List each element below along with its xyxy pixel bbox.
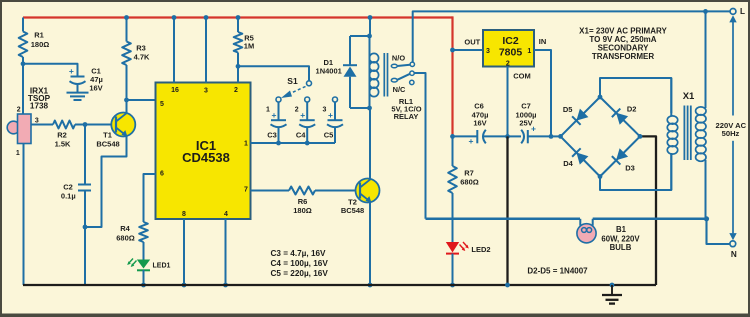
wire LED2 to ground: [452, 254, 454, 285]
svg-text:680Ω: 680Ω: [116, 234, 135, 243]
label 220V AC: [716, 121, 747, 138]
mains live wire: [729, 15, 736, 240]
node LED2 ground: [450, 283, 455, 288]
R7 labels: [460, 169, 479, 187]
switch S1: [281, 76, 312, 98]
svg-text:1738: 1738: [30, 102, 49, 111]
wire relay common to bulb: [426, 218, 581, 221]
svg-text:N/C: N/C: [393, 85, 406, 94]
svg-text:X1: X1: [683, 91, 695, 102]
wire IC1 pin4 ground: [225, 219, 227, 285]
wire R1 to IRX1 pin2: [22, 64, 24, 114]
node relay rail: [368, 15, 373, 20]
diode D3: [600, 136, 640, 176]
note X1 transformer: [579, 26, 667, 61]
node pin4 ground: [223, 283, 228, 288]
wire COM: [507, 67, 509, 137]
svg-text:1N4001: 1N4001: [316, 66, 342, 75]
svg-text:3: 3: [486, 48, 490, 55]
wire C7 to IN node: [528, 135, 551, 137]
svg-text:C4 = 100µ, 16V: C4 = 100µ, 16V: [271, 259, 329, 268]
capacitor C6: [469, 102, 489, 146]
svg-text:0.1µ: 0.1µ: [61, 192, 76, 201]
node R2-C2-base junction: [83, 122, 88, 127]
svg-text:LED1: LED1: [153, 263, 171, 270]
wire 5V node to R7: [452, 136, 454, 166]
wire T1 collector: [126, 100, 128, 113]
transformer X1 secondary: [667, 78, 677, 190]
svg-text:2: 2: [295, 107, 299, 114]
svg-text:1M: 1M: [244, 42, 254, 51]
wire rail to relay: [369, 18, 371, 37]
wire IC1 pin8 ground: [183, 219, 185, 285]
svg-text:C5: C5: [324, 131, 334, 140]
wire OUT: [453, 49, 484, 51]
wire C2 to ground: [84, 191, 86, 286]
svg-text:+: +: [69, 66, 74, 76]
wire junction to C2: [84, 125, 86, 185]
node C3 pin1 line: [276, 141, 281, 146]
capacitor C5: [323, 97, 343, 143]
node R3 rail: [124, 15, 129, 20]
relay RL1 labels: [391, 97, 421, 121]
svg-text:RELAY: RELAY: [394, 112, 419, 121]
wire IC1 pin16: [173, 18, 175, 83]
diode D2: [600, 97, 640, 136]
svg-text:LED2: LED2: [471, 245, 490, 254]
svg-text:3: 3: [323, 107, 327, 114]
svg-text:+: +: [300, 110, 305, 120]
wire black riser bridge: [640, 136, 656, 285]
transformer X1 label: [683, 91, 695, 102]
note D2-D5: [527, 267, 588, 276]
svg-text:CD4538: CD4538: [182, 150, 230, 165]
wire ground bus: [23, 284, 656, 286]
svg-text:60W, 220V: 60W, 220V: [601, 234, 640, 243]
svg-text:C2: C2: [63, 183, 73, 192]
svg-text:D4: D4: [563, 159, 573, 168]
svg-text:+: +: [272, 110, 277, 120]
svg-text:1: 1: [16, 150, 20, 157]
ground symbol: [602, 283, 622, 304]
capacitor C3: [266, 97, 286, 143]
svg-text:IN: IN: [539, 37, 547, 46]
node OUT junction: [450, 48, 455, 53]
node pin16 rail: [172, 15, 177, 20]
diode D5: [561, 97, 601, 136]
ground symbol C1: [67, 85, 89, 100]
svg-text:7805: 7805: [499, 47, 523, 59]
wire C6 to COM node: [484, 135, 508, 137]
wire bulb to N junction: [593, 218, 707, 221]
svg-text:+: +: [469, 136, 474, 146]
node bridge bottom: [598, 174, 603, 179]
node riser ground: [505, 283, 510, 288]
transistor T1 BC548: [96, 113, 135, 149]
node coil top: [367, 34, 372, 39]
wire IC1 pin3: [205, 18, 207, 83]
capacitor C1: [69, 66, 103, 93]
node coil bottom: [367, 106, 372, 111]
diode D4: [561, 136, 601, 176]
transformer X1 primary: [696, 11, 706, 218]
wire N/O to L terminal: [413, 11, 733, 62]
svg-text:R1: R1: [34, 31, 44, 40]
node primary top: [703, 9, 708, 14]
node pin8 ground: [182, 283, 187, 288]
svg-text:680Ω: 680Ω: [460, 178, 479, 187]
svg-text:+: +: [531, 124, 536, 134]
node IN bridge junction: [549, 134, 554, 139]
wire T1 emitter: [85, 136, 127, 227]
svg-text:B1: B1: [616, 225, 627, 234]
svg-text:180Ω: 180Ω: [293, 206, 312, 215]
svg-text:COM: COM: [513, 71, 531, 80]
svg-text:6: 6: [160, 171, 164, 178]
wire 5V red rail: [23, 16, 453, 136]
LED2: [446, 242, 491, 254]
wire D1 bottom to coil: [350, 107, 370, 109]
terminal N: [730, 241, 737, 259]
svg-text:4: 4: [224, 211, 228, 218]
svg-text:L: L: [740, 7, 745, 16]
relay RL1 N/C contact: [393, 80, 414, 94]
wire IC1 pin6 to R4: [144, 174, 156, 222]
wire IRX1 pin1 to ground: [23, 144, 25, 286]
svg-text:2: 2: [234, 87, 238, 94]
node T2 emitter ground: [368, 283, 373, 288]
node 5V-C6 junction: [450, 134, 455, 139]
svg-text:D2: D2: [627, 105, 637, 114]
wire relay common: [414, 73, 425, 219]
svg-text:180Ω: 180Ω: [31, 40, 50, 49]
wire IC1 pin1 to caps: [251, 142, 336, 144]
svg-text:C3 = 4.7µ, 16V: C3 = 4.7µ, 16V: [271, 249, 327, 258]
capacitor C4: [295, 97, 315, 143]
wire T2 collector to relay: [369, 108, 371, 179]
svg-text:2: 2: [506, 60, 510, 67]
regulator IC2 7805: [464, 30, 546, 80]
wire N leg: [707, 219, 730, 244]
svg-text:R7: R7: [464, 169, 474, 178]
svg-text:C5 = 220µ, 16V: C5 = 220µ, 16V: [271, 269, 329, 278]
svg-text:16: 16: [171, 87, 179, 94]
svg-text:16V: 16V: [473, 118, 486, 127]
resistor R2: [53, 121, 116, 149]
LED1: [127, 259, 170, 271]
wire R5 node to S1: [238, 66, 309, 81]
svg-text:7: 7: [244, 187, 248, 194]
wire IN node to bridge: [551, 135, 561, 137]
svg-text:1: 1: [244, 141, 248, 148]
relay RL1 coil: [369, 36, 387, 108]
svg-text:BC548: BC548: [96, 140, 119, 149]
node R5 rail: [236, 15, 241, 20]
node bulb-N junction: [704, 216, 709, 221]
svg-text:D2-D5 = 1N4007: D2-D5 = 1N4007: [527, 267, 588, 276]
node COM ground junction: [505, 134, 510, 139]
resistor R4: [116, 222, 148, 260]
IR receiver IRX1 TSOP1738: [7, 87, 50, 158]
svg-text:5: 5: [160, 101, 164, 108]
relay RL1 pole arm: [391, 71, 414, 82]
op-amp U1 IC1 CD4538: [156, 83, 251, 220]
wire bridge AC bottom: [600, 153, 671, 190]
svg-text:BC548: BC548: [341, 206, 364, 215]
wire COM node to C7: [508, 135, 522, 137]
svg-text:1: 1: [266, 107, 270, 114]
svg-text:+: +: [328, 110, 333, 120]
svg-text:8: 8: [182, 211, 186, 218]
node R5-S1-pin2: [236, 64, 241, 69]
node bridge right: [638, 134, 643, 139]
wire bridge AC top: [600, 78, 671, 113]
wire coil top to D1: [350, 35, 370, 37]
svg-text:50Hz: 50Hz: [722, 129, 740, 138]
svg-text:2: 2: [17, 107, 21, 114]
wire LED1 to ground: [143, 270, 145, 285]
wire IC1 pin7: [251, 190, 290, 192]
svg-text:T1: T1: [103, 131, 112, 140]
relay RL1 N/O contact: [391, 53, 414, 67]
note C3 C4 C5 values: [271, 249, 329, 278]
wire to IC1 pin5: [127, 99, 156, 101]
resistor R3: [122, 18, 150, 101]
svg-text:4.7K: 4.7K: [134, 53, 150, 62]
svg-text:R2: R2: [57, 131, 67, 140]
svg-text:R6: R6: [298, 197, 308, 206]
wire junction to C1: [23, 64, 78, 77]
resistor R5: [234, 18, 255, 83]
svg-text:IC2: IC2: [502, 35, 519, 47]
node bridge left: [558, 134, 563, 139]
svg-text:N: N: [731, 250, 737, 259]
transformer X1 core: [684, 106, 690, 161]
svg-text:S1: S1: [287, 76, 298, 86]
svg-text:3: 3: [204, 88, 208, 95]
terminal L: [730, 7, 745, 16]
node LED1 ground: [141, 283, 146, 288]
node R1-IRX junction: [21, 61, 26, 66]
svg-text:R3: R3: [136, 44, 146, 53]
svg-text:BULB: BULB: [610, 243, 632, 252]
svg-text:OUT: OUT: [464, 38, 480, 47]
resistor R6: [289, 187, 360, 216]
bulb B1 60W: [577, 219, 640, 252]
svg-text:3: 3: [35, 118, 39, 125]
svg-text:C3: C3: [267, 131, 277, 140]
svg-text:TRANSFORMER: TRANSFORMER: [592, 52, 654, 61]
node pin3 rail: [204, 15, 209, 20]
node C2-emitter junction: [83, 225, 88, 230]
svg-text:1: 1: [527, 48, 531, 55]
svg-text:N/O: N/O: [392, 53, 405, 62]
capacitor C7: [515, 102, 536, 144]
wire IRX1 pin3 to R2: [31, 124, 53, 126]
diode D1 1N4001: [316, 36, 357, 108]
wire black riser COM: [506, 136, 508, 285]
svg-text:R4: R4: [120, 224, 130, 233]
wire T2 emitter to ground: [369, 202, 371, 285]
resistor R7: [448, 166, 457, 242]
wire IN: [534, 50, 551, 136]
node R3-pin5-collector: [124, 98, 129, 103]
node C4 pin1 line: [305, 141, 310, 146]
svg-text:1.5K: 1.5K: [55, 139, 71, 148]
wire junction to C6: [453, 135, 478, 137]
svg-text:D3: D3: [625, 164, 635, 173]
svg-text:16V: 16V: [89, 84, 102, 93]
svg-text:D5: D5: [563, 105, 573, 114]
svg-text:C4: C4: [296, 131, 306, 140]
resistor R1: [19, 18, 50, 64]
transistor T2 BC548: [341, 179, 380, 216]
capacitor C2: [61, 183, 91, 201]
node bridge top: [598, 95, 603, 100]
